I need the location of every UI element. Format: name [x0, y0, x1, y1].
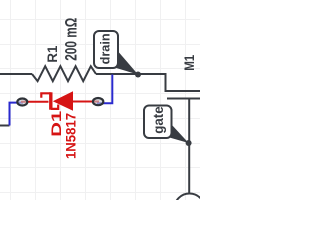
svg-text:1N5817: 1N5817: [63, 113, 79, 159]
terminal oval left: [17, 99, 27, 106]
wire: M1 gate lead from right edge: [167, 98, 200, 100]
svg-text:D1: D1: [49, 110, 64, 137]
terminal oval right: [93, 98, 103, 105]
svg-text:R1: R1: [45, 45, 60, 62]
transistor M1 body circle (clipped at bottom): [174, 194, 204, 224]
gate flag tail: [166, 125, 189, 144]
resistor R1: [32, 66, 96, 81]
node dot drain: [135, 72, 141, 78]
wire: blue net left: [10, 103, 24, 126]
diode D1 cathode lead: [21, 101, 49, 103]
svg-text:200 mΩ: 200 mΩ: [63, 18, 81, 61]
wire: left input to resistor: [0, 73, 32, 75]
svg-text:drain: drain: [99, 33, 113, 64]
wire: resistor to corner: [96, 73, 166, 75]
wire: gate vertical: [188, 99, 190, 194]
node dot gate: [186, 140, 192, 146]
drain flag tail: [115, 53, 139, 75]
diode D1 schottky bar: [49, 92, 52, 109]
svg-text:gate: gate: [151, 106, 166, 134]
wire: corner down and right to M1 drain: [166, 73, 201, 91]
drain flag box: [94, 31, 118, 68]
wire: bottom left stub: [0, 125, 10, 127]
diode D1 anode lead: [73, 101, 99, 103]
gate flag box: [144, 106, 172, 139]
wire: blue net right: [97, 75, 112, 104]
diode D1 triangle: [53, 91, 73, 111]
svg-text:M1: M1: [182, 54, 197, 70]
